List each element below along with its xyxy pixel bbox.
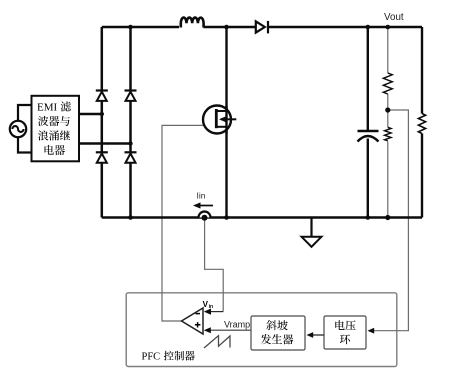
wire AC to EMI top [18, 105, 32, 121]
diode D5 boost [256, 21, 268, 34]
voltage loop block [324, 316, 366, 349]
diode D1 bridge upper-left [96, 89, 108, 91]
node dots bottom bus [128, 215, 390, 220]
capacitor C1 branch wire [367, 27, 369, 218]
svg-text:in: in [209, 304, 213, 310]
op-amp U1 comparator [182, 308, 204, 334]
wire bottom bus [102, 216, 422, 219]
wire MOSFET drain-source branch [225, 27, 227, 218]
svg-text:EMI: EMI [37, 102, 58, 114]
diode D2 bridge upper-right [125, 89, 137, 91]
diode D3 bridge lower-left [96, 151, 108, 153]
node dots top bus [128, 25, 390, 30]
AC source V1 [10, 121, 26, 137]
arrow voltage loop to ramp generator [312, 334, 325, 336]
current sense hump [199, 212, 211, 218]
node EMI lower stub junction [128, 141, 132, 145]
resistor Rload [418, 114, 425, 134]
svg-text:PFC: PFC [142, 352, 161, 363]
wire bridge left column [101, 27, 104, 218]
wire current sense to comparator [205, 219, 224, 312]
wire bridge right column [129, 27, 132, 218]
wire load branch [421, 27, 423, 218]
resistor R1 [383, 73, 392, 94]
wire gate feedback (op-amp output to MOSFET gate) [162, 125, 203, 321]
ramp generator block [251, 316, 305, 350]
node Iin sense dot [202, 215, 208, 221]
node FB divider junction [385, 107, 390, 112]
svg-text:Iin: Iin [197, 191, 206, 201]
svg-text:Vramp: Vramp [224, 319, 250, 329]
wire divider to voltage loop [374, 110, 409, 331]
wire top bus [102, 26, 422, 28]
ground [310, 218, 312, 237]
wire Vramp into + input [211, 329, 252, 331]
Iin arrow [200, 205, 213, 207]
PFC controller box [126, 293, 397, 367]
wire EMI to bridge lower [79, 142, 131, 144]
inductor L1 [181, 18, 204, 28]
svg-text:Vout: Vout [384, 12, 404, 23]
transistor Q1 MOSFET [203, 106, 236, 134]
wire AC to EMI bottom [18, 137, 32, 152]
diode D4 bridge lower-right [125, 151, 137, 153]
capacitor C1 [358, 131, 379, 142]
node EMI upper stub junction [100, 112, 104, 116]
resistor R2 [384, 127, 391, 141]
wire EMI to bridge upper [79, 113, 102, 115]
resistor divider branch R1 R2 [387, 27, 389, 218]
sawtooth symbol [204, 336, 230, 348]
EMI filter block U2 [32, 96, 80, 162]
